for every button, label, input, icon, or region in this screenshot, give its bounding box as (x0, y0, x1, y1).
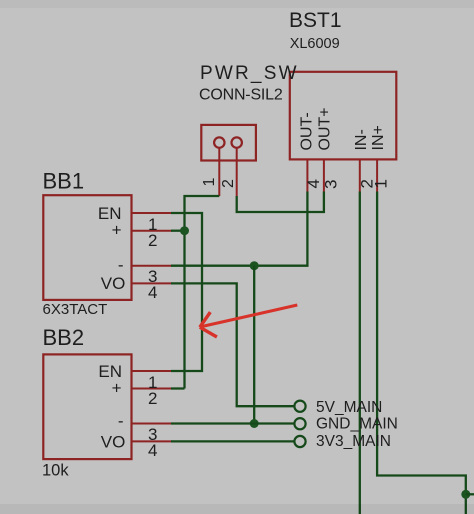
svg-text:2: 2 (148, 389, 157, 408)
svg-text:2: 2 (148, 231, 157, 250)
wire IN- down (359, 192, 361, 514)
junction at BB1 pin2 (180, 226, 189, 235)
svg-text:10k: 10k (42, 462, 69, 480)
svg-text:2: 2 (220, 179, 237, 188)
connector PWR_SW body (201, 125, 256, 161)
BB2 body (43, 354, 131, 459)
svg-text:BB1: BB1 (43, 169, 85, 194)
BB1 pin 1 stub (132, 212, 173, 214)
svg-text:IN-: IN- (353, 129, 370, 150)
svg-text:4: 4 (148, 441, 157, 460)
wire down to GND row (253, 266, 255, 424)
BST1 pin 4 stub (306, 159, 308, 192)
PWR_SW pin 2 stub (236, 148, 238, 196)
svg-text:IN+: IN+ (370, 125, 387, 150)
svg-text:OUT+: OUT+ (317, 107, 334, 150)
BB2 pin 4 stub (132, 440, 173, 442)
PWR_SW pin 1 circle (214, 137, 224, 147)
svg-text:3V3_MAIN: 3V3_MAIN (316, 433, 391, 450)
BB1 pin 2 stub (132, 230, 173, 232)
junction on OUT- wire (250, 261, 259, 270)
BB1 body (43, 195, 131, 300)
annotation red arrow shaft (201, 305, 297, 327)
BB1 pin 4 stub (132, 282, 173, 284)
svg-text:6X3TACT: 6X3TACT (43, 301, 108, 318)
junction on IN+ drop (461, 490, 470, 499)
wire GND row (171, 422, 295, 424)
svg-text:5V_MAIN: 5V_MAIN (316, 399, 382, 416)
svg-text:-: - (118, 412, 124, 431)
pad circle GND_MAIN (294, 418, 305, 429)
svg-text:1: 1 (372, 179, 391, 188)
svg-text:PWR_SW: PWR_SW (200, 63, 299, 84)
BB2 pin 2 stub (132, 388, 173, 390)
BST1 pin 2 stub (359, 159, 361, 192)
boost module BST1 body (290, 72, 397, 160)
svg-text:CONN-SIL2: CONN-SIL2 (199, 87, 283, 104)
svg-text:BB2: BB2 (43, 325, 85, 350)
svg-text:+: + (112, 379, 122, 398)
top edge shade (0, 0, 474, 8)
wire net SW1 to plus rails (185, 196, 220, 389)
wire net EN1 to EN2 (171, 213, 202, 371)
wire BB2 VO to 3V3 pad (171, 440, 295, 442)
wire BB1 VO to 5V pad (171, 283, 295, 406)
svg-text:VO: VO (101, 274, 126, 293)
wire BB2 pin2 to net (171, 387, 185, 389)
annotation red arrow head (200, 312, 217, 337)
BB2 pin 3 stub (132, 423, 173, 425)
svg-text:4: 4 (304, 179, 323, 188)
wire SW2 to OUT+ (237, 192, 324, 213)
BB2 pin 1 stub (132, 370, 173, 372)
svg-text:4: 4 (148, 283, 157, 302)
bottom edge shade (0, 504, 474, 514)
svg-text:GND_MAIN: GND_MAIN (316, 416, 398, 433)
wire stub to right edge (466, 493, 474, 495)
svg-text:-: - (118, 256, 124, 275)
BST1 pin 3 stub (323, 159, 325, 192)
BST1 pin 1 stub (376, 159, 378, 192)
svg-text:BST1: BST1 (289, 9, 342, 32)
svg-text:+: + (112, 221, 122, 240)
pad circle 3V3_MAIN (294, 436, 305, 447)
wire IN+ down and right (377, 192, 466, 514)
BB1 pin 3 stub (132, 265, 173, 267)
svg-text:OUT-: OUT- (299, 112, 316, 150)
svg-text:VO: VO (101, 432, 126, 451)
svg-text:XL6009: XL6009 (290, 36, 340, 52)
PWR_SW pin 1 stub (218, 148, 220, 196)
svg-text:3: 3 (322, 180, 341, 189)
wire OUT- to BB1 pin3 (171, 192, 307, 266)
junction on GND row (250, 419, 259, 428)
pad circle 5V_MAIN (294, 401, 305, 412)
svg-text:1: 1 (201, 178, 218, 187)
PWR_SW pin 2 circle (232, 137, 242, 147)
wire BB1 pin2 to net (171, 230, 185, 232)
